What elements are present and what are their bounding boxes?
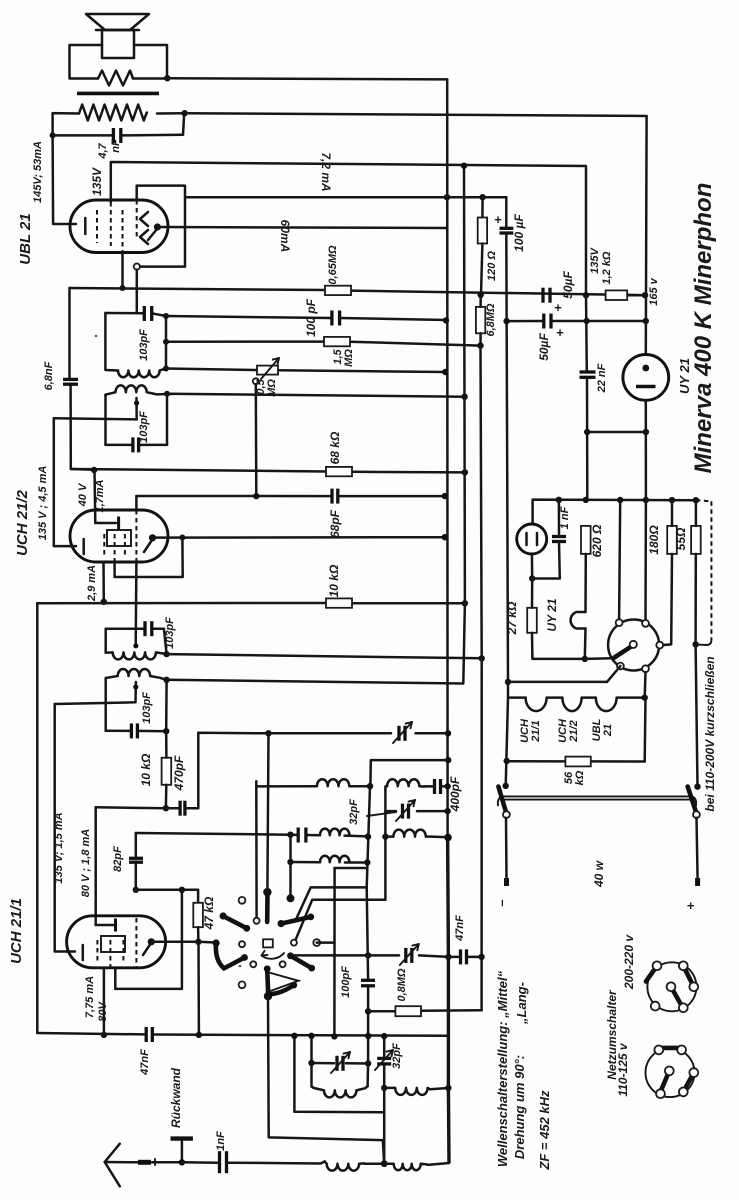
IF transformer T2 box left [104, 395, 107, 445]
wire coilE to V1 [345, 861, 367, 864]
T4 coil centre tap [55, 682, 136, 704]
capacitor 22nF plates [580, 370, 596, 373]
wire disc feed top-right [644, 500, 647, 620]
wire UY filament bottom [531, 554, 534, 579]
wire screen loop top [137, 186, 185, 267]
UCH21/1 grid dashed 3 [122, 940, 124, 964]
svg-text:82pF: 82pF [112, 846, 124, 872]
svg-text:2,9 mA: 2,9 mA [86, 565, 98, 602]
wire V2 vertical [296, 790, 386, 941]
wire heater chain row [508, 682, 526, 698]
node dot B+ at 586 [583, 292, 589, 298]
wire V1 vertical [296, 786, 371, 920]
wire 68pF row [136, 495, 332, 498]
wire 82pF column [135, 833, 138, 858]
svg-text:47nF: 47nF [139, 1049, 151, 1076]
capacitor 47nF left plates [145, 1027, 148, 1042]
UCH21/2 grid dashed 3 [124, 534, 126, 558]
wire grid return row 197 [185, 196, 506, 199]
node dot 384 bottom [381, 1160, 388, 1167]
Rueckwand stem [181, 1140, 184, 1162]
node dot row 760 at bus [445, 757, 451, 763]
svg-text:10 kΩ: 10 kΩ [139, 753, 153, 786]
svg-text:7,75 mA: 7,75 mA [84, 976, 96, 1018]
wire anode row 537 [153, 536, 445, 539]
wire 32pF trimmer row [385, 810, 396, 813]
disc contact bottom-left [617, 663, 624, 670]
wire row659 to disc [585, 657, 613, 660]
node big dot 267 at 892 [263, 888, 271, 896]
svg-text:Wellenschalterstellung: „Mitte: Wellenschalterstellung: „Mittel“ [495, 970, 510, 1167]
node dot V1 row2 [365, 833, 371, 839]
wire V0 down to switch [255, 786, 258, 917]
disc2 arm right [683, 1073, 694, 1092]
svg-text:32pF: 32pF [348, 799, 360, 825]
resistor 6.8MOhm [476, 307, 485, 333]
svg-text:47nF: 47nF [454, 915, 466, 942]
node dot 68pF at bus447 [442, 493, 448, 499]
page speck 1 [95, 335, 97, 337]
tube UCH21/1 envelope [67, 916, 166, 968]
node dot X311 at row1035 [308, 1033, 314, 1039]
speaker cone base line [96, 29, 139, 32]
node dot 165v [642, 292, 648, 298]
wire 47k bottom [197, 927, 200, 942]
wire 1nF column [558, 500, 561, 537]
resistor 0.65MOhm [325, 286, 351, 295]
trimmer 32pF arrow [396, 800, 415, 821]
resistor 120 Ohm [478, 218, 487, 244]
wire X367 column [367, 887, 368, 980]
coil A osc row1 [317, 779, 353, 786]
svg-text:+: + [683, 902, 698, 910]
wire pot row 372 [166, 369, 257, 371]
mains terminal right [695, 878, 700, 886]
wire 0.65M row [70, 288, 326, 290]
wire pot wiper down [255, 384, 258, 496]
wire left bus UBL cathode [53, 135, 76, 224]
band switch blade 2 [216, 943, 245, 968]
node dot anode row at bus447 [442, 534, 448, 540]
wire anode row to blade [198, 941, 218, 944]
node dot T1 right bottom [163, 366, 169, 372]
node dot 50uF2 at 646 [643, 318, 649, 324]
IF transformer T3 cap row [106, 627, 145, 630]
resistor 180 Ohm [667, 526, 677, 554]
node dot V1 row3 [364, 859, 370, 865]
wire 10k osc top [165, 731, 168, 758]
capacitor 100uF plates [500, 227, 514, 230]
node dot row2 290 [287, 832, 293, 838]
UCH21/1 inner box [101, 936, 125, 952]
node dot 120R at B+ row [478, 292, 484, 298]
UCH21/2 anode dot [149, 534, 156, 541]
svg-text:21/2: 21/2 [568, 720, 580, 742]
UBL21 anode dot [154, 223, 161, 230]
disc contact top-right [642, 620, 649, 627]
resistor 1.2kOhm [606, 290, 628, 300]
page speck 2 [239, 965, 242, 968]
UCH21/2 cathode bar [82, 539, 85, 554]
wire anode row 941 [151, 941, 198, 944]
coil I [384, 1164, 427, 1171]
svg-text:Minerva 400 K Minerphon: Minerva 400 K Minerphon [690, 183, 717, 474]
wire plug to dot [152, 1161, 182, 1164]
node dot 122/288 [120, 285, 126, 291]
wire zigzag to node [133, 77, 167, 80]
UBL21 diode plates [140, 212, 148, 226]
wire coilG to bus [430, 1088, 448, 1089]
node dot 182 on anode row [179, 535, 185, 541]
wire 6.8M bottom [479, 333, 482, 345]
node dot coilG bus [445, 1085, 451, 1091]
svg-text:21: 21 [602, 724, 614, 737]
node dot speaker line [164, 75, 170, 81]
node dot 4.7nF row left [50, 132, 56, 138]
node dot T3 right [163, 651, 169, 657]
svg-text:400pF: 400pF [448, 776, 462, 812]
node dot T2 top right [164, 391, 170, 397]
svg-text:135 V; 1,5 mA: 135 V; 1,5 mA [53, 812, 65, 883]
coil D row2 [385, 830, 430, 837]
node dot row397 at bus464 [461, 394, 467, 400]
capacitor 100pF osc plates [361, 979, 375, 982]
dashed link top [696, 500, 712, 501]
wire coilH to dot [365, 1162, 384, 1165]
pot wiper circle [253, 378, 259, 384]
T4 bottom row [106, 729, 132, 732]
wire osc row1 left [256, 781, 317, 786]
T2 coil centre tap [135, 398, 138, 419]
UBL21 screen dashed [136, 200, 138, 240]
svg-text:103pF: 103pF [138, 411, 150, 443]
svg-text:Drehung um 90°:: Drehung um 90°: [512, 1055, 527, 1159]
band switch rotation arc [262, 953, 285, 959]
wire 27k top stub [531, 579, 534, 608]
UY21 filament pins [525, 533, 528, 545]
wire centre tap row 419 [54, 418, 137, 419]
node dot 10k at bus464 [462, 600, 468, 606]
UBL21 grid dashed 3 [122, 210, 124, 252]
svg-text:bei 110-200V kurzschließen: bei 110-200V kurzschließen [703, 656, 717, 811]
main bus 447 vertical [447, 79, 449, 1163]
UCH21/2 anode arm [144, 540, 152, 552]
node dot 470pF row [163, 805, 169, 811]
svg-text:„Lang-: „Lang- [514, 982, 529, 1025]
left bus 37 corner [36, 603, 39, 1033]
wire coilC to V1 [345, 834, 369, 837]
wire 55R bottom to mains switch [696, 644, 698, 786]
node dot X384 coilG [381, 1085, 387, 1091]
wire 4.7nF row [53, 134, 114, 137]
trimmer 32pF no2 arrow [375, 1050, 393, 1070]
tube UBL21 envelope [70, 200, 168, 253]
coil G [384, 1088, 430, 1095]
capacitor 1nF plates [218, 1151, 221, 1173]
wire 4.7nF stub up to primary dot [183, 113, 184, 135]
resistor 10kOhm osc [162, 758, 172, 785]
svg-text:135V: 135V [90, 167, 104, 196]
wire 400pF to bus [424, 785, 434, 788]
node dot 22nF row at 586 [584, 429, 590, 435]
node dot T4 bottom right [163, 728, 169, 734]
tube UCH21/2 envelope [70, 510, 168, 562]
trimmer MW plates [335, 1056, 338, 1071]
wire contact 316 to X334 [317, 941, 335, 944]
node dot 197 row at bus [444, 194, 450, 200]
node dot 47k anode row [195, 939, 201, 945]
capacitor 103pF T1 plates [143, 306, 146, 321]
wire X508 681 stub right [508, 681, 607, 684]
svg-text:100pF: 100pF [340, 966, 352, 998]
UCH21/1 anode arm [143, 943, 151, 955]
node dot pot wiper at 68pF row [253, 493, 259, 499]
wire screen loop UCH2 [115, 538, 183, 578]
disc selector arm [614, 646, 632, 658]
wire row 890 [136, 890, 198, 903]
T2 bottom row [106, 444, 133, 447]
node dot V1 row1 [367, 783, 373, 789]
node dot trimmer row at bus [445, 730, 451, 736]
wire X294 vertical [294, 1036, 382, 1113]
node dot 68k at bus464 [462, 469, 468, 475]
wire 40V down to tube grid [93, 470, 96, 523]
wire 1.5M row [166, 340, 324, 343]
svg-text:80 V ; 1,8 mA: 80 V ; 1,8 mA [80, 829, 92, 898]
wire screen loop stub down [136, 270, 139, 313]
heater hump UBL21 [596, 698, 645, 712]
mains bracket right [692, 796, 696, 805]
wire 0.8M row [368, 1010, 395, 1013]
UCH21/1 cathode bar [82, 945, 85, 960]
trimmer 32pF no2 plates [377, 1057, 391, 1060]
node dot Rueckwand [179, 1159, 185, 1165]
node dot cathode at 10k row [101, 599, 107, 605]
potentiometer arrow [261, 358, 279, 379]
wire disc feeds top-left [619, 500, 620, 620]
trimmer arrow [393, 722, 412, 743]
capacitor 47nF right plates [459, 949, 462, 964]
mains switch pivot left [503, 811, 510, 818]
transformer core bar [77, 92, 159, 96]
capacitor 103pF T4 plates [130, 723, 133, 738]
coil H [325, 1161, 364, 1170]
tube UY21 rectifier circle [623, 355, 669, 401]
antenna lead [105, 1161, 138, 1164]
UBL21 anode arm [148, 229, 157, 240]
capacitor C 4.7nF plates [112, 128, 115, 143]
svg-text:7,2 mA: 7,2 mA [319, 152, 333, 191]
node dot row955 at 368 [365, 952, 371, 958]
wire T1 right vertical [165, 316, 168, 369]
band switch blade 3 [281, 917, 311, 924]
disc centre circle [630, 641, 637, 648]
wire speaker row to right bus [167, 78, 447, 79]
UY21 cathode dot [642, 365, 649, 372]
svg-text:kΩ: kΩ [574, 770, 586, 785]
wire row3 862 [291, 861, 321, 864]
wire anode row 60mA [157, 227, 446, 228]
UCH21/1 hexode dashed [135, 918, 137, 968]
svg-text:620 Ω: 620 Ω [590, 524, 604, 557]
wire 56k row [507, 760, 566, 763]
svg-text:200-220 v: 200-220 v [622, 934, 636, 990]
wire tube bottom to 0.65M row [121, 253, 124, 289]
bus 135V 464 vertical [463, 166, 465, 684]
wire hexode grid drop [135, 496, 138, 510]
wire UCH1 cathode down [103, 968, 106, 1035]
antenna plug [138, 1160, 151, 1165]
svg-text:40 w: 40 w [592, 860, 606, 888]
node dot cathode row1035 [101, 1032, 107, 1038]
node big dot blade5 bottom [264, 992, 272, 1000]
T3 coil [106, 652, 164, 659]
resistor 27kOhm [527, 608, 537, 633]
capacitor 50uF no1 plates [541, 288, 544, 303]
Rueckwand plate bar [171, 1136, 193, 1140]
node dots filament row [556, 497, 562, 503]
band switch contact circles [239, 897, 246, 904]
resistor 47kOhm [193, 903, 203, 927]
wire AVC row 397 [167, 394, 465, 397]
mains switch blade right [688, 787, 696, 812]
svg-text:–: – [494, 899, 509, 906]
wire X267 vertical top [267, 733, 268, 892]
antenna symbol [105, 1144, 120, 1187]
coil B osc row1 [387, 779, 424, 786]
node dot 50uF2 at 586 [583, 318, 589, 324]
voltage selector disc circle [608, 620, 659, 671]
wire 100uF down [506, 233, 508, 682]
wire row 808 left part [96, 806, 166, 809]
wire row 680 to bus464 corner [167, 680, 464, 684]
wire 290 vertical [289, 835, 292, 899]
node dot mains right top [694, 783, 700, 789]
resistor 1.5MOhm [324, 337, 350, 346]
band switch blade 6 [268, 985, 294, 994]
wire X334 vertical [335, 867, 367, 870]
wire 68k row [71, 469, 326, 472]
wire 182 down loop UCH1 [115, 890, 182, 989]
speaker magnet body [102, 30, 134, 58]
T4 box right [165, 680, 168, 731]
resistor 0.8MOhm [395, 1006, 421, 1016]
wire 120R bottom [481, 244, 482, 295]
disc contact top-left [616, 619, 623, 626]
node dot 56k row left [504, 758, 510, 764]
wire 135V plate row [111, 162, 586, 295]
node dot X294 at row1035 [291, 1033, 297, 1039]
node dot T4 top right [163, 677, 169, 683]
T2 right vertical [166, 394, 169, 445]
UCH21/1 grid dashed 2 [109, 940, 111, 968]
node dot row1063 left [308, 1060, 314, 1066]
T3 box left [104, 629, 107, 653]
disc1 bar top-right [683, 966, 694, 987]
UCH21/1 grid dashed 1 [96, 940, 98, 964]
svg-text:+: + [554, 300, 562, 315]
svg-text:+: + [494, 212, 502, 227]
UCH21/2 top grid [95, 522, 116, 525]
wire primary right to dot [157, 112, 185, 115]
node dot row955 at bus [445, 954, 451, 960]
mains double line [502, 795, 692, 797]
svg-text:1 nF: 1 nF [559, 506, 571, 529]
wire 6.8M top stub [479, 295, 482, 307]
band switch blade 4 [291, 956, 312, 968]
mains terminal left [504, 878, 509, 886]
node dot row2 at bus [444, 834, 452, 842]
node dot 82pF bottom row [133, 887, 139, 893]
IF transformer T1 top row [105, 312, 144, 315]
svg-text:4,7: 4,7 [97, 142, 109, 159]
svg-text:110-125 v: 110-125 v [616, 1042, 630, 1096]
band switch blade 1 [223, 916, 247, 928]
wire chain right up to disc [643, 672, 646, 698]
wire 10k row [37, 602, 326, 605]
capacitor 103pF T2 plates [131, 437, 134, 452]
svg-text:165 v: 165 v [648, 277, 660, 305]
voice-coil resistor zigzag [98, 71, 133, 86]
wire row 760 to V1 [370, 760, 448, 786]
disc contact bottom-right [642, 665, 649, 672]
svg-text:MΩ: MΩ [343, 349, 355, 367]
capacitor 1nF filament plates [552, 535, 566, 538]
node dot row890 182 [179, 887, 185, 893]
UCH21/2 inner box [107, 530, 131, 546]
wire coilD to bus [431, 835, 448, 838]
mains switch pivot right [693, 811, 700, 818]
wire 120R 6.8M column top [481, 197, 484, 217]
coil E row3 [320, 856, 350, 863]
svg-text:nF: nF [110, 139, 122, 153]
wire 47k down to row 1035 [197, 942, 200, 1035]
wire bus646 top [645, 116, 648, 355]
wire 6.8nF branch [68, 288, 71, 379]
UCH21/2 hexode grid dashed long [135, 510, 137, 562]
T3 box right [164, 629, 167, 654]
svg-text:103pF: 103pF [141, 692, 153, 724]
svg-text:6,8MΩ: 6,8MΩ [485, 303, 497, 336]
T3 coil centre tap wire [134, 562, 137, 646]
svg-text:50µF: 50µF [561, 271, 575, 299]
node dot 27k top [529, 575, 535, 581]
wire row2 833 [136, 833, 291, 835]
capacitor 400pF plates [433, 779, 436, 794]
svg-text:470pF: 470pF [172, 755, 186, 791]
svg-text:UCH 21/2: UCH 21/2 [14, 489, 31, 556]
disc contact right [656, 642, 663, 649]
trimmer MW arrow [331, 1052, 350, 1073]
capacitor row2 plates [297, 828, 300, 843]
UBL21 grid dashed 1 [96, 210, 98, 243]
svg-text:55Ω: 55Ω [674, 527, 688, 550]
wire 620R bottom [584, 554, 587, 612]
svg-text:40 V: 40 V [77, 482, 89, 507]
band switch centre square [263, 939, 273, 947]
node dot 40V [91, 467, 97, 473]
wire cathode drop to 10k row [102, 562, 105, 602]
UCH21/1 top grid [96, 924, 113, 927]
node dot 50uF2 row at bus447 [443, 317, 449, 323]
wire X508 down [506, 698, 508, 786]
node dot 32pF row at bus [444, 808, 450, 814]
svg-text:60mA: 60mA [278, 220, 292, 253]
wire 586 vertical 135V feed [585, 295, 588, 372]
wire 470pF row right [166, 807, 180, 810]
wire 480 vertical [481, 346, 482, 659]
svg-text:135 V ; 4,5 mA: 135 V ; 4,5 mA [37, 466, 49, 541]
